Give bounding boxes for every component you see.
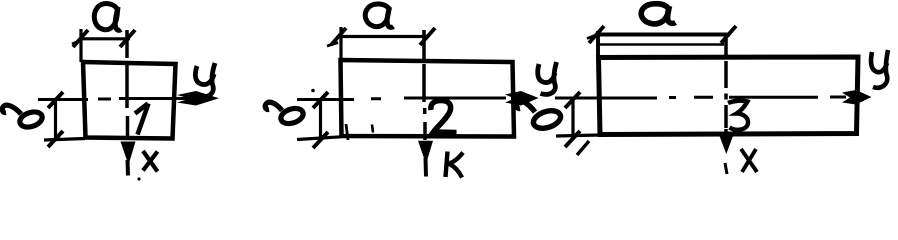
axis x (vertical centerline) of section 3: [724, 33, 728, 135]
dimension line b (vertical), section 3: [571, 100, 574, 140]
extension line, section 1 top left: [79, 29, 82, 62]
axis x (vertical centerline) of section 2: [424, 30, 425, 140]
corner overshoot bottom-left, section 2: [346, 124, 348, 140]
tick top of dim b, section 3: [565, 92, 580, 108]
label a, section 1: [94, 4, 121, 31]
label k (x), section 2: [446, 152, 464, 178]
dimension line a, section 3: [596, 33, 730, 37]
tick bottom of dim b, section 2: [313, 132, 328, 148]
scan speck near fig1 arrow: [137, 177, 140, 180]
label a, section 2: [365, 4, 393, 27]
stray tick below rect bottom-left, section 3: [577, 141, 589, 155]
label b (rotated), section 1: [2, 105, 44, 129]
tick bottom of dim b, section 3: [565, 131, 580, 147]
label digit 3: [728, 101, 748, 130]
label y, section 1: [195, 63, 215, 97]
tick top of dim b, section 2: [313, 92, 328, 108]
tick right of dim a, section 3: [721, 26, 736, 43]
label a, section 3: [641, 4, 675, 24]
extension line bottom left, section 2: [297, 137, 341, 140]
extension line bottom left, section 3: [556, 135, 600, 136]
left end stub of dim a, section 3: [587, 35, 596, 39]
label x, section 1: [143, 151, 158, 172]
axis y (horizontal centerline) of section 2: [297, 98, 506, 100]
arrow y right, section 3: [842, 90, 872, 105]
axis y (horizontal centerline) of section 3: [555, 97, 846, 98]
dimension line b (vertical), section 1: [54, 100, 57, 140]
rectangle section 2: [341, 60, 515, 137]
doubled lower dim line a, section 3: [597, 43, 724, 46]
label digit 2: [431, 101, 457, 133]
tick right of dim a, section 1: [120, 30, 135, 47]
label y, section 2: [538, 62, 557, 94]
axis x (vertical centerline) of section 1: [125, 30, 129, 140]
tick right of dim a, section 2: [420, 28, 435, 45]
arrow x down, section 3: [720, 136, 734, 154]
tick left of dim a, section 2: [331, 28, 346, 45]
label digit 1: [135, 104, 149, 135]
left end stub of dim a, section 1: [72, 41, 80, 45]
arrow y right, section 1: [177, 91, 219, 106]
stray mark above bottom edge, section 2: [372, 125, 373, 133]
label b (rotated), section 2: [265, 102, 305, 126]
arrow x down, section 2: [418, 141, 433, 164]
label x, section 3: [741, 149, 757, 172]
tick left of dim a, section 3: [589, 26, 604, 43]
dimension line a, section 2: [338, 35, 429, 38]
left end stub of dim a, section 2: [327, 43, 338, 47]
dimension line a, section 1: [79, 37, 130, 40]
arrow x down, section 1: [121, 142, 136, 166]
label b (rotated), section 3: [516, 101, 563, 132]
axis y (horizontal centerline) of section 1: [38, 99, 198, 100]
rectangle section 1: [83, 62, 176, 139]
tick left of dim a, section 1: [73, 30, 88, 47]
extension line bottom left, section 1: [44, 139, 85, 141]
rectangle section 3: [599, 57, 859, 135]
arrow y right, section 2: [505, 91, 539, 106]
label y, section 3: [871, 50, 888, 88]
tick bottom of dim b, section 1: [48, 131, 63, 147]
extension line, section 2 top left: [339, 27, 342, 60]
dimension line b (vertical), section 2: [319, 100, 322, 140]
extension line, section 3 top left: [596, 31, 600, 58]
tick top of dim b, section 1: [48, 92, 63, 108]
scan speck left of fig2 b tick: [311, 89, 315, 93]
speck below arrow x, section 3: [725, 163, 727, 174]
